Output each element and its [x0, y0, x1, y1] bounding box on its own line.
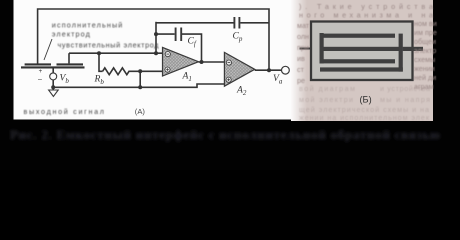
svg-text:при: при — [297, 43, 309, 52]
svg-text:ив: ив — [297, 54, 305, 63]
svg-text:Рис. 2. Емкостный интерфейс с: Рис. 2. Емкостный интерфейс с исполнител… — [10, 127, 440, 142]
svg-text:мат: мат — [297, 21, 310, 30]
svg-text:им пре: им пре — [414, 28, 437, 37]
svg-text:ст: ст — [297, 65, 305, 74]
svg-text:мы и напря: мы и напря — [380, 95, 430, 104]
svg-text:олн: олн — [297, 32, 309, 41]
svg-text:чувствительный электрод: чувствительный электрод — [58, 41, 160, 50]
svg-text:(Б): (Б) — [360, 95, 372, 105]
svg-text:общеи: общеи — [414, 37, 436, 46]
svg-text:(А): (А) — [135, 107, 146, 116]
svg-text:электрод: электрод — [52, 29, 91, 38]
svg-text:мой электри: мой электри — [299, 95, 353, 104]
svg-text:и устройства: и устройства — [380, 84, 430, 93]
svg-text:ней ди: ней ди — [414, 73, 436, 82]
svg-text:выходной сигнал: выходной сигнал — [24, 107, 105, 116]
svg-text:схемы: схемы — [414, 55, 435, 64]
svg-text:ном ви: ном ви — [414, 19, 437, 28]
svg-text:электр: электр — [414, 46, 436, 55]
svg-text:вой диаграм: вой диаграм — [299, 84, 355, 93]
svg-text:жении на исполнительном элек: жении на исполнительном элек — [299, 113, 430, 122]
svg-text:исполнительный: исполнительный — [52, 21, 123, 30]
svg-text:+: + — [39, 68, 43, 75]
svg-text:жении: жении — [414, 64, 435, 73]
svg-text:–: – — [38, 76, 42, 83]
